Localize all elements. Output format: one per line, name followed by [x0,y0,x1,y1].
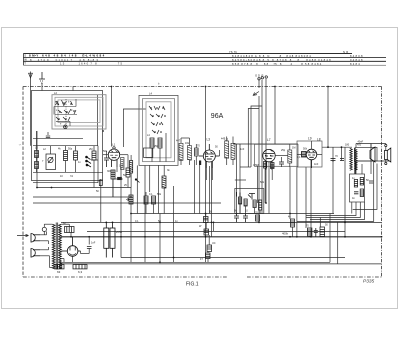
switch S2 contacts [86,156,91,167]
svg-text:UC: UC [212,242,216,245]
field coil box [355,147,377,161]
svg-text:300: 300 [107,170,112,173]
wire bottom box right edge [329,214,331,263]
IFT2 coil Lb [231,143,235,159]
wire vertical x333 [332,158,334,214]
wire vertical x311 [310,160,312,237]
wire bus y187 [37,187,131,189]
resistor R1 [74,151,78,160]
table rule 4 [24,64,387,66]
resistor R14 [206,253,211,259]
wire speaker [356,144,386,163]
mixer tube B1 ECH3 [108,149,119,167]
bias capacitor C12 [314,228,318,237]
svg-text:FIG.1: FIG.1 [186,282,199,288]
tiny switch labels [55,102,73,126]
volume resistor R33 [259,200,262,210]
wire oscillator verticals [137,133,166,214]
RF input shield box [32,91,103,181]
svg-text:8 4 7 4 9 F 1 0 4: 8 4 7 4 9 F 1 0 4 1 7 4 8 8 • 8 3 [30,58,98,62]
oscillator shield box outer [139,95,178,165]
wire bias network [206,214,214,263]
fuse F1 [42,227,46,231]
svg-text:25p: 25p [154,145,159,148]
resistor R6 volume [264,162,267,169]
wire IFT1 [181,138,196,165]
output grid network box L9 [297,141,322,167]
oscillator shield box mid [143,99,175,162]
wire bus y172 [33,171,103,173]
svg-text:2x50: 2x50 [116,230,123,234]
wire bus y231 [87,230,345,232]
wire top bus to oscillator box [72,87,74,92]
detector tube B3 EBL [263,149,275,170]
wire vertical x362 [361,164,363,174]
wire HT bus y237 [61,236,382,238]
wire output stage [297,141,342,161]
volume resistor R30 [239,197,242,204]
wire vertical x275 [274,87,276,145]
svg-text:L3: L3 [207,138,211,142]
RF coil shield box inner 2 [55,97,103,126]
bias resistor R26 [320,227,325,237]
power transformer T1 secondary [59,224,62,269]
wire feedback drops [351,202,353,214]
svg-text:L7: L7 [267,138,271,142]
svg-text:447: 447 [176,140,181,143]
RF coil shield box inner 1 [52,95,106,129]
wire vertical x160 [159,214,161,263]
coil box labels [35,91,152,150]
volume resistor R32 [253,200,256,208]
output transformer T2 primary [350,148,353,170]
output tube B4 EL3 [306,149,317,168]
svg-text:1M: 1M [292,147,295,150]
resistor R13 [207,245,212,252]
tiny value labels [42,134,369,261]
gramo terminal P [265,76,267,78]
volume control network box [235,189,264,214]
wire bus y147 [322,146,352,148]
svg-text:8 M•Y 6 4 8 4 8 8 4 I 4: 8 M•Y 6 4 8 4 8 8 4 I 4 8 E•L 4 % 0 8 4 [29,54,105,58]
electrolytic capacitor C10 [104,222,109,257]
resistor R2 [92,151,96,160]
svg-text:0,1: 0,1 [149,193,153,196]
wire bias drops right [296,167,298,237]
mains plug lower [31,249,40,258]
capacitor C8 [340,159,344,161]
band switch contacts S1 [56,100,77,121]
svg-text:2M: 2M [89,148,92,151]
output network box [350,174,365,202]
wire bus y213 [131,213,334,215]
svg-text:8 4 5 8 9 • 8 0 8 4 8 8 5: 8 4 5 8 9 • 8 0 8 4 8 8 5 8 8 7 0.8 8 8 … [232,58,331,62]
svg-text:50p: 50p [68,148,73,151]
resistor R27 [144,196,148,204]
svg-text:63: 63 [57,270,61,274]
svg-text:1nF: 1nF [240,148,245,151]
trimmer capacitor C20 [64,125,68,129]
padder capacitor C2 [64,151,68,161]
IF tube B2 EF9 [199,144,220,168]
wire vertical x145 [144,165,146,262]
wire bus y144 [233,143,298,145]
svg-text:N R: N R [343,50,348,54]
IFT2 coil La [225,141,229,158]
wire vertical x345 [344,147,346,237]
earth symbol [39,72,45,83]
wire vertical x211.5 [211,162,213,237]
electrolytic capacitor C11 [110,222,115,257]
svg-text:96A: 96A [211,113,224,120]
svg-text:8 5 8 8 7 8 8 8 8 8: 8 5 8 8 7 8 8 8 8 8 75 8 4 8 5 8 8 4 8 4 [232,62,322,66]
IFT1 coil La [179,143,183,160]
wire long vertical x97.5 [97,95,99,146]
oscillator coil L3b [158,138,162,148]
osc padder box [144,148,153,157]
capacitor C7 [331,159,336,163]
bias resistor R16 [307,228,312,236]
svg-text:S: S [24,54,26,58]
wire mixer connections [94,146,128,197]
resistor R3 under mixer [111,170,115,179]
wire gramo switch pair corners [251,106,262,167]
svg-text:L9: L9 [308,137,312,141]
table row labels [24,54,27,66]
wire vertical x121 [120,167,122,258]
resistor R11 bias [204,217,209,223]
wire vertical x269 [268,162,270,214]
wire mains to transformer [40,224,52,267]
speaker cone in box [370,147,375,162]
oscillator switch contacts [149,106,165,134]
svg-text:8 4 8 4 4 8 4 8 A 8 8 N: 8 4 8 4 4 8 4 8 A 8 8 N 8 8 4 8 8 4 8 0 … [232,54,311,58]
wire detector connections [240,144,290,203]
cathode resistor blob B2 [199,161,201,166]
cathode coil L12 [121,158,124,170]
chassis boundary bottom (dash) [23,276,382,278]
wire bus y197 [33,196,131,198]
oscillator shield box inner [146,102,171,158]
svg-text:100: 100 [119,165,124,168]
svg-text:1nF: 1nF [91,242,96,245]
speaker terminals [385,144,387,146]
wire vertical x131 [130,188,132,263]
wire secondary taps [60,224,89,267]
mains plug upper [31,234,40,243]
svg-text:P335: P335 [363,279,375,285]
T2 core [354,148,355,174]
svg-text:4nF: 4nF [314,163,319,166]
resistor R12 [204,229,209,235]
power transformer T1 core [56,223,58,270]
output transformer T2 secondary [355,150,357,171]
wire gang box top [123,109,146,147]
gramo terminal G [258,78,260,80]
svg-text:0,1: 0,1 [135,220,139,223]
wire long vertical x205.5 [205,87,207,263]
wire vertical x328 [327,87,329,148]
svg-text:8 4 8 4: 8 4 8 4 [350,62,360,66]
heater lamp box E1 [55,265,64,269]
svg-text:0,1: 0,1 [297,156,301,159]
heater lamp box E2 [73,265,87,269]
wire osc lower [131,155,153,214]
osc coil L11 [162,176,166,188]
wire vertical x194.5 [194,160,196,214]
resistor R28 [152,196,156,204]
svg-text:25p: 25p [281,149,286,152]
switch S3 arrow [253,92,259,96]
wire vertical x37 [36,131,38,188]
bottom mid small capacitor C14 [234,214,239,223]
bottom mid resistor R17 [256,215,260,221]
wire vertical x173.5 [173,186,175,262]
wire vertical x371 [370,144,372,175]
output network capacitor C19 [354,192,358,194]
gramo terminal D [261,77,263,79]
IFT1 coil Lb [188,146,192,161]
table rule 2 [24,56,387,58]
wire vertical x290 [289,167,291,219]
mains cord arrow [17,234,29,236]
trimmer capacitor C1 [46,154,56,170]
wire earth lead [41,83,43,91]
chassis boundary top (dash-dot) [23,86,382,88]
bottom mid small capacitor C15 [243,214,248,223]
volume control R18 [126,195,133,204]
svg-text:1 5 1 6 4 0 7: 1 5 1 6 4 0 7 8 7 5 [60,62,123,66]
loudspeaker [385,148,391,162]
svg-text:7S 7b: 7S 7b [229,50,238,54]
table rule 1 [24,52,353,54]
grid cap terminal B1 [113,147,115,149]
wire gramo leads [258,96,260,222]
svg-text:400k: 400k [282,232,289,236]
mains resistor R22 [65,227,75,233]
switch contact dots [57,102,75,120]
resistor R4 [126,168,130,177]
oscillator contact dots [150,107,166,133]
table left border [23,53,25,65]
coil L2 [35,162,39,169]
coil L1 [35,151,39,158]
svg-text:∽: ∽ [19,143,22,147]
bias resistor R15 [291,219,295,227]
svg-text:L1: L1 [112,143,116,147]
antenna symbol [29,72,33,87]
switch S4 contact [135,179,139,183]
capacitor C18 [46,132,50,139]
AVC feed vertical with resistor R29 [99,179,102,222]
svg-text:8.4 8 0.8: 8.4 8 0.8 [350,54,363,58]
svg-text:W: W [24,58,27,62]
detector coil L7h [288,150,292,163]
svg-text:6,3: 6,3 [78,270,83,274]
wire vertical x341 [341,147,343,158]
oscillator coil L3a [150,138,154,148]
chassis boundary left (dash) [22,87,24,278]
svg-text:400: 400 [357,144,362,147]
wire bus y257 [121,257,345,259]
svg-text:447: 447 [221,138,226,141]
wire bus y161 speaker line [355,160,389,162]
wire bus y203 [33,202,221,204]
wire IFT2 [200,137,233,214]
output network resistor R24 [360,178,363,186]
wire AVC line y138.7 [33,138,83,140]
power transformer T1 primary [52,224,55,269]
band switch shaft (dashed) [65,99,67,125]
capacitor C6 [279,162,284,164]
table rule 3 [24,60,387,62]
capacitor C3 [104,158,109,167]
detector IFT box [255,144,299,166]
capacitor C21 [369,181,373,183]
capacitor C9 [87,247,92,249]
IF trap coil L10 [130,161,133,174]
rectifier tube B5 AZ1 [61,237,80,256]
svg-text:180: 180 [345,144,350,147]
wire vertical pair x236-240 [236,144,238,214]
chassis boundary right (dash-dot) [381,87,383,278]
wire vertical x356 [355,161,357,174]
wire heater bus pair [60,261,330,263]
svg-text:0.4 8.4 8: 0.4 8.4 8 [350,58,363,62]
trimmer C4 [195,148,199,156]
wire volume network [235,180,260,214]
output network resistor R25 [360,189,363,197]
resistor R7 [271,163,275,169]
volume resistor R31 [244,199,247,206]
wire RF box internals [33,131,98,183]
svg-text:0,5M: 0,5M [253,164,259,167]
resistor R8 [302,152,307,158]
svg-text:G D P: G D P [255,74,264,78]
output network resistor R23 [354,180,357,188]
switch blob S5 [112,177,123,197]
svg-text:7A: 7A [70,175,73,178]
RF coil shield box inner 3 [58,100,100,123]
wire mixer grid lead x111.5 [111,87,113,147]
wire antenna lead down [30,87,32,146]
wire switch interconnects [54,99,77,126]
volume network marks [237,192,256,200]
wire bus y222 [61,221,382,223]
